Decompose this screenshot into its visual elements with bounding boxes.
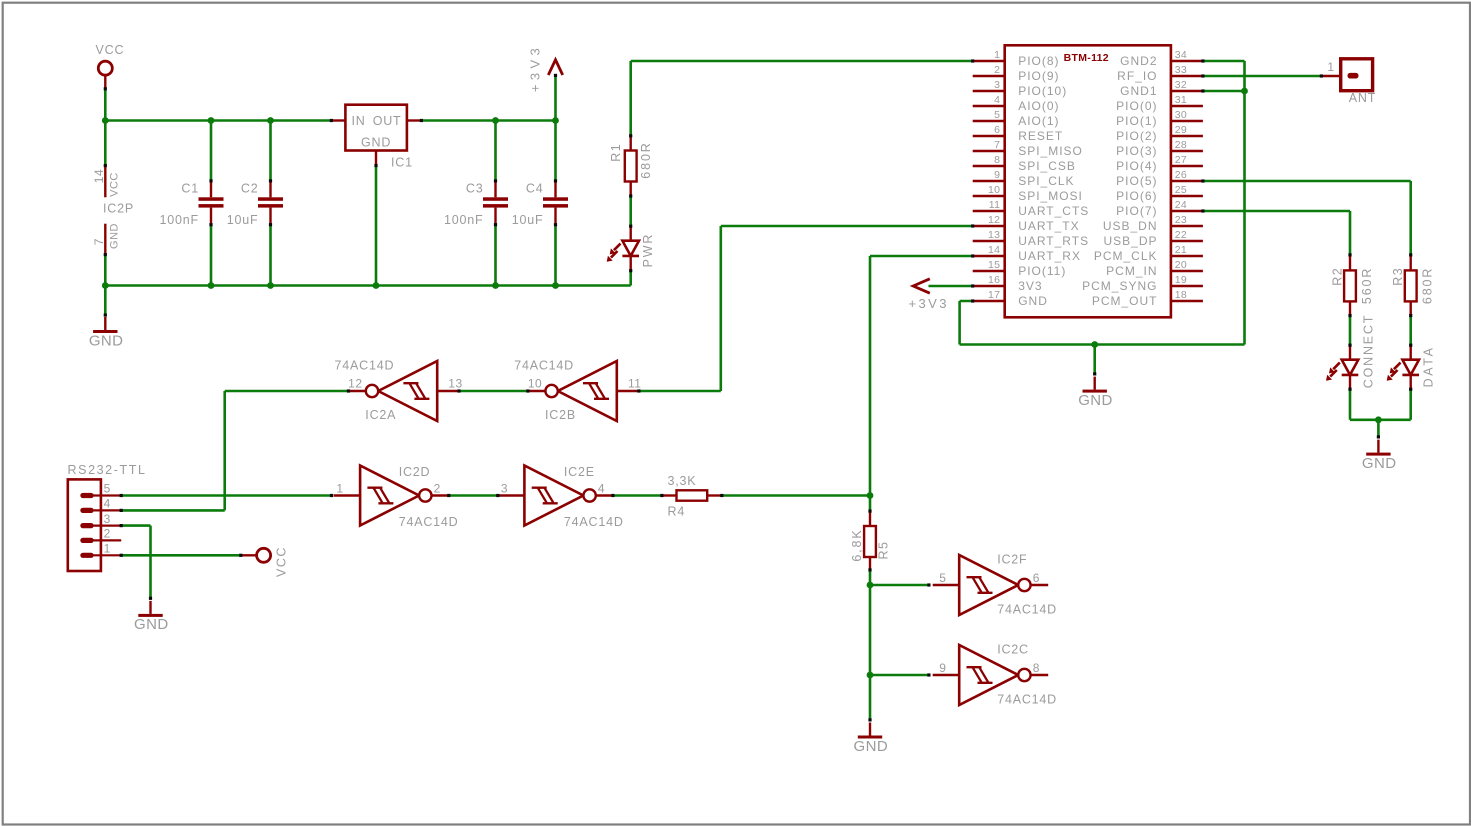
ground symbol GND (divider) — [854, 723, 889, 755]
svg-text:5: 5 — [104, 482, 111, 496]
svg-text:11: 11 — [628, 376, 641, 390]
svg-text:28: 28 — [1175, 139, 1187, 151]
svg-text:USB_DN: USB_DN — [1103, 219, 1158, 233]
svg-text:74AC14D: 74AC14D — [997, 603, 1057, 617]
svg-text:PIO(0): PIO(0) — [1116, 99, 1157, 113]
svg-text:13: 13 — [448, 376, 462, 390]
junction — [102, 117, 109, 124]
svg-text:560R: 560R — [1360, 267, 1374, 304]
svg-text:33: 33 — [1175, 64, 1187, 76]
svg-text:12: 12 — [988, 214, 1000, 226]
svg-text:74AC14D: 74AC14D — [997, 693, 1057, 707]
svg-text:VCC: VCC — [274, 546, 288, 577]
svg-text:PIO(10): PIO(10) — [1018, 84, 1067, 98]
inverter IC2D (74AC14D) — [334, 466, 450, 526]
svg-text:30: 30 — [1175, 109, 1187, 121]
connector RS232-TTL — [68, 463, 147, 571]
resistor R1 — [609, 136, 653, 197]
wire R5 to IC2F/IC2C/GND — [870, 570, 929, 720]
svg-text:PIO(5): PIO(5) — [1116, 174, 1157, 188]
wire IC2A out to RS232 pin4 — [121, 391, 348, 510]
svg-text:GND2: GND2 — [1120, 54, 1157, 68]
svg-text:8: 8 — [994, 154, 1000, 166]
svg-text:PIO(6): PIO(6) — [1116, 189, 1157, 203]
svg-text:74AC14D: 74AC14D — [514, 358, 574, 372]
wire RS232 pin3 to GND — [121, 526, 150, 599]
svg-text:GND: GND — [1018, 294, 1048, 308]
svg-text:PIO(1): PIO(1) — [1116, 114, 1157, 128]
svg-text:PCM_SYNG: PCM_SYNG — [1082, 279, 1157, 293]
svg-text:IC2B: IC2B — [545, 408, 576, 422]
svg-text:16: 16 — [988, 274, 1000, 286]
supply symbol +3V3 — [528, 44, 563, 92]
svg-text:R1: R1 — [609, 143, 623, 162]
resistor R3 — [1391, 255, 1434, 316]
wire BTM GND net — [960, 61, 1245, 374]
svg-text:C4: C4 — [526, 182, 544, 196]
ground symbol GND (power section) — [89, 317, 124, 349]
svg-text:4: 4 — [598, 482, 605, 496]
svg-text:100nF: 100nF — [160, 213, 199, 227]
svg-text:IC2A: IC2A — [365, 408, 396, 422]
svg-text:SPI_CSB: SPI_CSB — [1018, 159, 1076, 173]
svg-text:R4: R4 — [668, 505, 686, 519]
junction — [373, 282, 380, 289]
wire IC2E out to R4 — [613, 494, 662, 497]
svg-text:2: 2 — [104, 527, 111, 541]
svg-text:IN: IN — [352, 114, 366, 128]
svg-text:24: 24 — [1175, 199, 1187, 211]
svg-text:26: 26 — [1175, 169, 1187, 181]
svg-text:SPI_MISO: SPI_MISO — [1018, 144, 1083, 158]
svg-text:+3V3: +3V3 — [909, 296, 949, 311]
svg-text:1: 1 — [104, 542, 111, 556]
svg-text:RS232-TTL: RS232-TTL — [68, 463, 147, 477]
svg-text:GND: GND — [361, 135, 391, 149]
svg-text:31: 31 — [1175, 94, 1187, 106]
capacitor C1 — [160, 181, 224, 227]
LED DATA — [1387, 345, 1419, 389]
svg-text:34: 34 — [1175, 49, 1187, 61]
wire PIO(7) to R2 — [1203, 211, 1350, 255]
svg-text:17: 17 — [988, 289, 1000, 301]
svg-text:6,8K: 6,8K — [850, 528, 864, 561]
svg-text:100nF: 100nF — [444, 213, 483, 227]
wire node to R5 — [869, 496, 872, 512]
svg-text:IC1: IC1 — [391, 156, 413, 170]
svg-text:RF_IO: RF_IO — [1117, 69, 1157, 83]
svg-text:22: 22 — [1175, 229, 1187, 241]
svg-text:9: 9 — [939, 661, 946, 675]
svg-text:R2: R2 — [1331, 267, 1345, 286]
junction — [208, 282, 215, 289]
wire GND rail (bottom) — [105, 166, 630, 314]
ground symbol GND (RS232) — [134, 601, 169, 633]
svg-text:PIO(8): PIO(8) — [1018, 54, 1059, 68]
svg-text:AIO(1): AIO(1) — [1018, 114, 1059, 128]
svg-text:PIO(2): PIO(2) — [1116, 129, 1157, 143]
svg-text:ANT: ANT — [1349, 91, 1376, 105]
svg-text:2: 2 — [994, 64, 1000, 76]
svg-text:7: 7 — [92, 238, 106, 245]
junction — [267, 117, 274, 124]
svg-text:UART_RTS: UART_RTS — [1018, 234, 1089, 248]
svg-text:4: 4 — [994, 94, 1000, 106]
svg-text:5: 5 — [939, 571, 946, 585]
wire PIO(8) net to R1 — [631, 61, 973, 136]
svg-text:27: 27 — [1175, 154, 1187, 166]
inverter IC2F (74AC14D) — [933, 555, 1048, 615]
voltage regulator IC1 — [331, 105, 421, 170]
svg-text:23: 23 — [1175, 214, 1187, 226]
svg-text:3V3: 3V3 — [1018, 279, 1042, 293]
inverter IC2E (74AC14D) — [498, 466, 614, 526]
power pins IC2P (74AC14D VCC/GND) — [92, 166, 134, 255]
svg-text:13: 13 — [988, 229, 1000, 241]
junction — [1375, 416, 1382, 423]
svg-text:IC2F: IC2F — [997, 553, 1027, 567]
svg-text:680R: 680R — [639, 141, 653, 178]
svg-text:25: 25 — [1175, 184, 1187, 196]
wire RS232 pin5 to IC2D — [121, 494, 331, 497]
wire R1 to PWR LED — [629, 196, 632, 226]
svg-text:15: 15 — [988, 259, 1000, 271]
wire IC2D out to IC2E in — [449, 494, 498, 497]
svg-text:10uF: 10uF — [512, 213, 544, 227]
svg-text:3: 3 — [994, 79, 1000, 91]
svg-text:C3: C3 — [466, 182, 484, 196]
ground symbol GND (LEDs) — [1362, 440, 1397, 472]
junction — [552, 117, 559, 124]
svg-text:74AC14D: 74AC14D — [335, 358, 395, 372]
svg-text:R3: R3 — [1391, 267, 1405, 286]
svg-text:GND: GND — [1362, 455, 1397, 472]
wire UART_TX net — [639, 226, 973, 391]
svg-text:10uF: 10uF — [227, 213, 259, 227]
svg-text:RESET: RESET — [1018, 129, 1063, 143]
svg-text:VCC: VCC — [96, 43, 125, 57]
svg-text:PCM_OUT: PCM_OUT — [1092, 294, 1158, 308]
pin connection ticks — [104, 59, 1413, 721]
svg-text:CONNECT: CONNECT — [1361, 314, 1375, 388]
resistor R5 — [850, 511, 891, 570]
svg-text:6: 6 — [1033, 571, 1040, 585]
svg-text:+3V3: +3V3 — [528, 44, 543, 92]
svg-text:UART_TX: UART_TX — [1018, 219, 1079, 233]
svg-text:C1: C1 — [181, 182, 199, 196]
svg-text:14: 14 — [988, 244, 1000, 256]
svg-text:SPI_MOSI: SPI_MOSI — [1018, 189, 1083, 203]
svg-text:74AC14D: 74AC14D — [564, 515, 624, 529]
junction — [867, 672, 874, 679]
svg-text:VCC: VCC — [108, 172, 120, 197]
wire +3V3 rail — [422, 75, 556, 181]
svg-text:GND: GND — [108, 223, 120, 249]
svg-text:3: 3 — [501, 482, 508, 496]
supply symbol VCC (RS232) — [241, 546, 289, 577]
svg-text:PCM_CLK: PCM_CLK — [1094, 249, 1158, 263]
svg-text:3,3K: 3,3K — [668, 474, 697, 488]
LED CONNECT — [1326, 345, 1358, 389]
svg-text:GND: GND — [134, 616, 169, 633]
junction — [102, 282, 109, 289]
svg-text:GND: GND — [89, 332, 124, 349]
svg-text:R5: R5 — [877, 541, 891, 560]
svg-text:PIO(3): PIO(3) — [1116, 144, 1157, 158]
junction — [492, 282, 499, 289]
svg-text:9: 9 — [994, 169, 1000, 181]
svg-text:7: 7 — [994, 139, 1000, 151]
svg-text:18: 18 — [1175, 289, 1187, 301]
svg-text:IC2C: IC2C — [997, 643, 1029, 657]
svg-text:14: 14 — [92, 169, 106, 183]
svg-text:1: 1 — [994, 49, 1000, 61]
svg-text:PIO(11): PIO(11) — [1018, 264, 1066, 278]
junction — [1241, 88, 1248, 95]
svg-text:12: 12 — [348, 376, 362, 390]
wire R4 to node — [722, 494, 870, 497]
capacitor C2 — [227, 181, 283, 227]
svg-text:C2: C2 — [241, 182, 259, 196]
inverter IC2C (74AC14D) — [933, 645, 1048, 705]
IC BTM-112 Bluetooth module — [973, 45, 1203, 317]
svg-text:680R: 680R — [1421, 267, 1435, 304]
svg-text:32: 32 — [1175, 79, 1187, 91]
wire RS232 pin1 to VCC — [121, 554, 241, 557]
svg-text:5: 5 — [994, 109, 1000, 121]
junction — [267, 282, 274, 289]
svg-text:UART_RX: UART_RX — [1018, 249, 1081, 263]
resistor R2 — [1331, 255, 1374, 316]
svg-text:10: 10 — [528, 376, 542, 390]
junction — [867, 582, 874, 589]
svg-text:2: 2 — [434, 482, 441, 496]
svg-text:PIO(4): PIO(4) — [1116, 159, 1157, 173]
wire RF_IO to ANT — [1203, 75, 1321, 78]
svg-text:OUT: OUT — [373, 114, 402, 128]
junction — [492, 117, 499, 124]
svg-text:3: 3 — [104, 512, 111, 526]
svg-text:PIO(7): PIO(7) — [1116, 204, 1157, 218]
svg-text:USB_DP: USB_DP — [1103, 234, 1157, 248]
wire PIO(5) to R3 — [1203, 181, 1411, 255]
svg-text:PWR: PWR — [641, 233, 655, 268]
svg-text:1: 1 — [336, 482, 343, 496]
svg-text:PCM_IN: PCM_IN — [1106, 264, 1157, 278]
antenna ANT — [1321, 59, 1376, 105]
wire VCC net (top rail) — [105, 89, 331, 181]
wire R2 to LED CONNECT — [1349, 316, 1352, 346]
svg-text:29: 29 — [1175, 124, 1187, 136]
svg-text:GND1: GND1 — [1120, 84, 1157, 98]
wire IC2B out to IC2A in — [459, 390, 528, 393]
svg-text:AIO(0): AIO(0) — [1018, 99, 1059, 113]
svg-text:PIO(9): PIO(9) — [1018, 69, 1059, 83]
svg-text:4: 4 — [104, 497, 111, 511]
svg-text:SPI_CLK: SPI_CLK — [1018, 174, 1074, 188]
svg-text:1: 1 — [1327, 60, 1334, 74]
wire UART_RX net — [870, 256, 973, 496]
supply symbol VCC — [96, 43, 125, 89]
svg-text:6: 6 — [994, 124, 1000, 136]
svg-text:19: 19 — [1175, 274, 1187, 286]
svg-text:21: 21 — [1175, 244, 1187, 256]
svg-text:GND: GND — [854, 738, 889, 755]
svg-text:GND: GND — [1078, 392, 1113, 409]
svg-text:10: 10 — [988, 184, 1000, 196]
capacitor C3 — [444, 181, 508, 227]
svg-text:11: 11 — [989, 199, 1001, 211]
resistor R4 — [662, 474, 722, 519]
svg-text:8: 8 — [1033, 661, 1040, 675]
svg-text:UART_CTS: UART_CTS — [1018, 204, 1089, 218]
ground symbol GND (BTM) — [1078, 377, 1113, 409]
svg-text:IC2P: IC2P — [103, 201, 134, 215]
svg-text:IC2E: IC2E — [564, 465, 595, 479]
svg-text:20: 20 — [1175, 259, 1187, 271]
inverter IC2B (74AC14D) — [528, 361, 639, 421]
wire LED cathodes to GND — [1350, 389, 1411, 437]
LED PWR — [607, 226, 639, 270]
junction — [208, 117, 215, 124]
junction — [1091, 341, 1098, 348]
junction node R4/R5/UART_RX — [867, 492, 874, 499]
svg-text:DATA: DATA — [1421, 345, 1435, 387]
supply symbol +3V3 (BTM) — [909, 279, 973, 311]
capacitor C4 — [512, 181, 568, 227]
wire R3 to LED DATA — [1409, 316, 1412, 346]
svg-text:74AC14D: 74AC14D — [399, 515, 459, 529]
inverter IC2A (74AC14D) — [348, 361, 459, 421]
junction — [552, 282, 559, 289]
svg-text:IC2D: IC2D — [399, 465, 431, 479]
svg-text:BTM-112: BTM-112 — [1064, 52, 1109, 64]
